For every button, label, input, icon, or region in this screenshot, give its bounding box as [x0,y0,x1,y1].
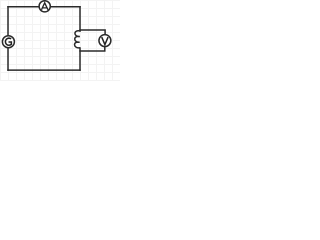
ammeter A [39,1,50,12]
voltmeter V [99,35,111,47]
wire left [7,7,9,70]
wire voltmeter bottom tap [80,47,105,51]
wire bottom [8,69,80,71]
inductor coil [75,31,80,48]
wire right upper [79,7,81,31]
wire voltmeter top tap [80,30,105,35]
wire top [8,6,80,8]
wire right lower [79,48,81,70]
generator G [2,36,14,48]
